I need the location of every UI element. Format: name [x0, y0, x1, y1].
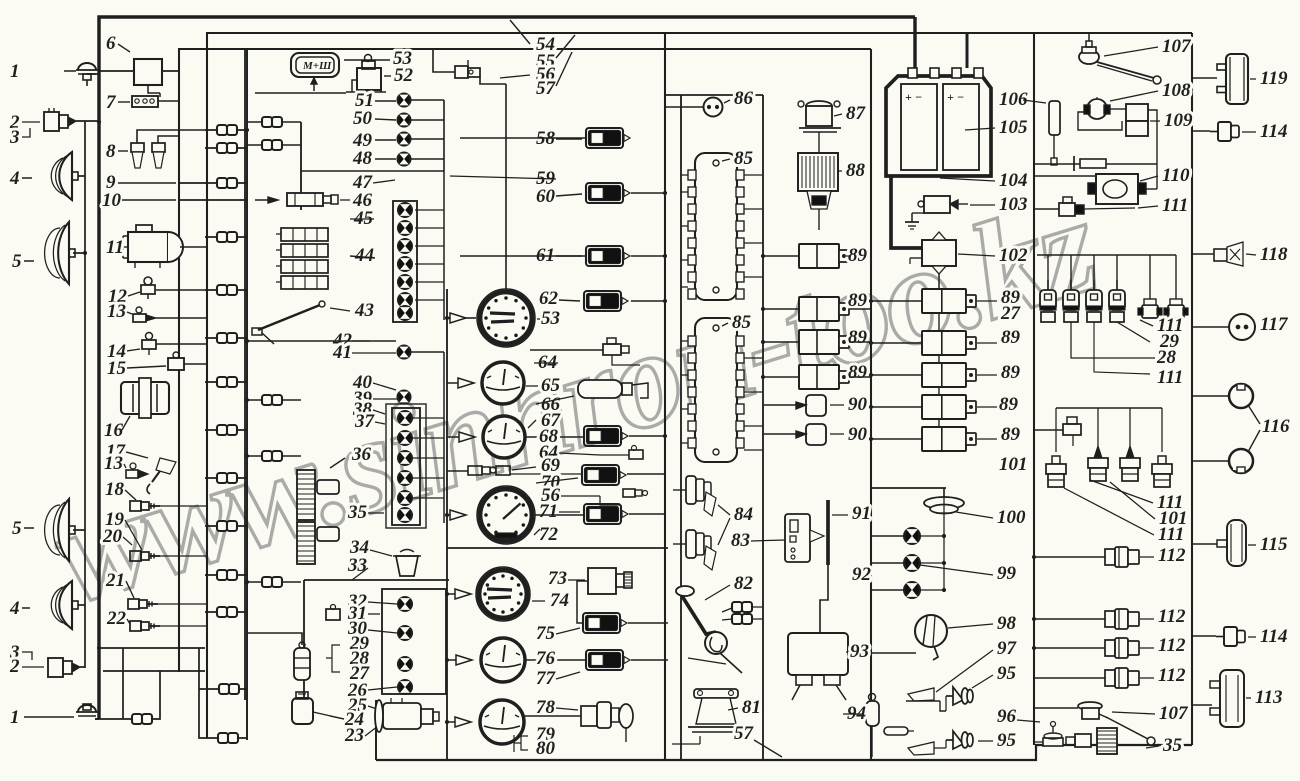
- speaker 95b: [953, 731, 963, 749]
- svg-text:50: 50: [353, 108, 373, 129]
- fuse 61: [586, 246, 623, 266]
- wire fuse61: [460, 255, 586, 257]
- svg-text:112: 112: [1158, 606, 1186, 627]
- valve 111t: [1059, 203, 1075, 216]
- svg-text:41: 41: [332, 342, 352, 363]
- gauge 76: [481, 638, 525, 682]
- breaker 103: [924, 196, 950, 213]
- ladder rungs: [205, 129, 247, 131]
- wire 89i: [871, 438, 922, 440]
- bulb block vertical: [303, 580, 305, 700]
- svg-text:87: 87: [846, 103, 867, 124]
- wire connector: [732, 614, 742, 624]
- switch 84 lower: [686, 530, 696, 558]
- svg-text:91: 91: [852, 503, 871, 524]
- gauge 53 speedometer: [477, 289, 535, 347]
- lamp 115: [1227, 520, 1246, 566]
- sensor 86: [704, 98, 723, 117]
- wire fuse62: [631, 300, 665, 302]
- bulb column 44-45: [393, 201, 417, 322]
- bulb column 37-39: [392, 408, 420, 525]
- bulb 32: [398, 597, 412, 611]
- fuse 77: [586, 650, 623, 670]
- wire connector: [217, 333, 227, 343]
- frame bottom edge: [376, 745, 1192, 760]
- heater plugs 29: [1040, 290, 1056, 310]
- svg-text:93: 93: [850, 641, 869, 662]
- svg-text:4: 4: [9, 598, 20, 619]
- wire fuse71: [629, 513, 665, 515]
- headlamp 5 top: [58, 222, 69, 284]
- wire connector: [262, 140, 272, 150]
- frame right edge: [1191, 33, 1193, 745]
- cock 96b: [1043, 738, 1063, 746]
- wire connector: [262, 395, 272, 405]
- wire connector: [217, 607, 227, 617]
- wire main feed top: [99, 17, 915, 719]
- headlamp 4 top: [59, 152, 72, 200]
- wire lamp5: [73, 252, 85, 254]
- wire 110 stubs: [1034, 175, 1096, 177]
- motor 11: [128, 232, 168, 262]
- svg-text:35: 35: [347, 502, 368, 523]
- bulb 41: [398, 346, 411, 359]
- wire 89d: [763, 376, 799, 378]
- svg-text:37: 37: [354, 411, 376, 432]
- svg-text:115: 115: [1260, 534, 1288, 555]
- svg-text:89: 89: [1001, 424, 1021, 445]
- wire sender73: [577, 581, 588, 623]
- ring lamp 116a: [1229, 384, 1253, 408]
- svg-text:+ −: + −: [905, 90, 922, 104]
- ground 103: [911, 213, 913, 222]
- flag 97: [908, 688, 934, 701]
- wire 114b: [1192, 635, 1216, 637]
- lamp 113: [1220, 670, 1244, 727]
- sensor 14: [146, 333, 153, 340]
- svg-text:71: 71: [539, 501, 558, 522]
- bulb box block edge: [304, 579, 449, 581]
- relay 89e: [922, 289, 966, 313]
- wire plug feeds: [1056, 407, 1162, 409]
- component 64b: [629, 450, 643, 459]
- svg-text:112: 112: [1158, 665, 1186, 686]
- bulb 50: [398, 114, 411, 127]
- wire 86: [665, 106, 703, 108]
- stalk switch 82: [676, 586, 694, 596]
- wire 89c: [763, 341, 799, 343]
- svg-text:+ −: + −: [947, 90, 964, 104]
- svg-text:107: 107: [1159, 703, 1189, 724]
- wire 119: [1192, 77, 1217, 79]
- svg-text:104: 104: [999, 170, 1028, 191]
- svg-text:13: 13: [107, 301, 126, 322]
- headlamp 5 bottom: [58, 499, 69, 561]
- svg-text:10: 10: [102, 190, 122, 211]
- svg-text:89: 89: [1001, 327, 1021, 348]
- svg-text:2: 2: [9, 656, 20, 677]
- wire 89g: [871, 374, 922, 376]
- svg-text:95: 95: [997, 730, 1017, 751]
- wire 84: [673, 489, 686, 491]
- wire gauge79: [447, 721, 455, 723]
- svg-text:77: 77: [536, 668, 557, 689]
- bulb 30: [398, 626, 412, 640]
- svg-text:84: 84: [734, 504, 753, 525]
- wire 89f: [871, 342, 922, 344]
- relay 6: [134, 59, 162, 85]
- svg-text:107: 107: [1162, 36, 1192, 57]
- heater 110: [1096, 174, 1138, 204]
- wire 81: [699, 736, 701, 744]
- svg-text:101: 101: [999, 454, 1028, 475]
- valve 112a: [1105, 549, 1115, 565]
- antenna 91: [826, 500, 830, 565]
- horn 118: [1214, 249, 1227, 261]
- component 66 flasher: [578, 380, 622, 398]
- svg-text:36: 36: [351, 444, 372, 465]
- relay 89h: [922, 395, 966, 419]
- wire bulbs 48-51 right: [411, 99, 444, 101]
- gauge block left vertical x447: [446, 289, 448, 760]
- horn relay 87: [806, 101, 832, 111]
- wire sender78: [524, 715, 581, 717]
- svg-text:76: 76: [536, 648, 556, 669]
- relay 89i: [922, 427, 966, 451]
- wire 117: [1192, 326, 1222, 328]
- lever 17: [152, 460, 168, 482]
- mid block right edge x665: [664, 33, 666, 760]
- fuse 71: [584, 504, 621, 524]
- device 31: [326, 609, 340, 620]
- svg-text:114: 114: [1260, 626, 1287, 647]
- svg-text:57: 57: [734, 723, 755, 744]
- relay 89f: [922, 331, 966, 355]
- wire 89h: [871, 406, 922, 408]
- svg-text:85: 85: [734, 148, 754, 169]
- fuse 59-60: [586, 183, 623, 203]
- gauge 67 ammeter: [483, 416, 525, 458]
- junction dots: [245, 128, 249, 132]
- resistor block 44: [281, 228, 328, 241]
- connector 7: [132, 96, 158, 107]
- fuse 62: [584, 291, 621, 311]
- wire strip1 right: [744, 174, 763, 176]
- svg-text:8: 8: [106, 141, 116, 162]
- sensor 15: [168, 358, 184, 370]
- mid vertical x301: [300, 122, 302, 210]
- wire row93: [255, 92, 346, 94]
- svg-text:81: 81: [742, 697, 761, 718]
- relay 89c: [799, 330, 839, 354]
- svg-text:7: 7: [106, 92, 117, 113]
- lamp 117: [1229, 314, 1255, 340]
- second ladder rungs: [247, 121, 301, 123]
- svg-text:28: 28: [1156, 347, 1177, 368]
- svg-text:105: 105: [999, 117, 1028, 138]
- wire bulbcol stubs: [415, 209, 444, 211]
- wire connector: [262, 451, 272, 461]
- wire lamp5b: [73, 529, 85, 531]
- fuse 75: [583, 613, 620, 633]
- wire vert x444 lower: [443, 352, 445, 523]
- wire connector: [217, 425, 227, 435]
- ring lamp 116b: [1229, 449, 1253, 473]
- svg-text:5: 5: [12, 251, 22, 272]
- plug 22: [130, 621, 141, 631]
- wire capsule: [248, 633, 302, 645]
- speaker 95a: [953, 687, 963, 705]
- gauge 72 speedometer: [477, 486, 535, 544]
- plug 114a: [1218, 122, 1231, 141]
- wire 90a: [763, 404, 796, 406]
- nuts 111m: [1142, 305, 1158, 318]
- valve 112d: [1105, 670, 1115, 686]
- wire gauge65: [447, 382, 458, 384]
- wire 112c: [1034, 647, 1105, 649]
- strip block left edge x681: [680, 95, 682, 760]
- flag 97b: [908, 742, 934, 755]
- frame bottom left stub: [375, 700, 377, 760]
- svg-text:27: 27: [1000, 303, 1022, 324]
- switch 83: [785, 514, 810, 562]
- gauge 73-74: [476, 567, 530, 621]
- svg-text:62: 62: [539, 288, 559, 309]
- svg-text:18: 18: [105, 479, 125, 500]
- wire 18-22: [160, 505, 207, 507]
- plug 2-3 top: [44, 112, 59, 131]
- svg-text:100: 100: [997, 507, 1026, 528]
- switch 94: [866, 701, 879, 726]
- wire plug23: [76, 120, 99, 122]
- connector strip 85 bottom: [695, 318, 737, 462]
- wire relay6: [99, 70, 134, 72]
- frame second line: [207, 33, 1192, 300]
- bulb box 26-32: [382, 589, 446, 694]
- svg-text:43: 43: [354, 300, 374, 321]
- svg-text:86: 86: [734, 88, 754, 109]
- wire heater bus: [1037, 254, 1176, 256]
- svg-text:96: 96: [997, 706, 1017, 727]
- washer nozzles 8: [131, 143, 144, 152]
- svg-text:99: 99: [997, 563, 1017, 584]
- svg-text:73: 73: [548, 568, 567, 589]
- svg-text:89: 89: [848, 290, 868, 311]
- wire lamp4b: [78, 604, 85, 606]
- svg-text:110: 110: [1162, 165, 1190, 186]
- wire connector: [217, 377, 227, 387]
- svg-text:1: 1: [10, 707, 20, 728]
- wire connector: [132, 714, 142, 724]
- spark plugs 101-111 row: [1052, 456, 1060, 464]
- wire 95b: [871, 744, 873, 757]
- wire bottom-left steps: [101, 647, 205, 649]
- wire fuse77: [631, 659, 668, 661]
- svg-text:109: 109: [1164, 110, 1193, 131]
- svg-text:89: 89: [848, 327, 868, 348]
- svg-text:98: 98: [997, 613, 1017, 634]
- wire vertical x444: [443, 100, 445, 171]
- wire 92: [871, 535, 904, 537]
- wire 112d: [1034, 677, 1105, 679]
- pedal 81: [694, 689, 738, 698]
- wire battery heavy down: [891, 176, 924, 248]
- wire fuse68: [629, 435, 665, 437]
- wire strip2 left: [681, 340, 688, 342]
- wire gauge72: [447, 514, 450, 516]
- bulb 40 single: [398, 391, 411, 404]
- horn 1 bottom: [78, 705, 96, 712]
- wire conn7: [158, 100, 179, 102]
- switch 84 upper: [686, 476, 696, 504]
- wire 108-109: [1078, 112, 1122, 130]
- wire 112a: [1034, 556, 1105, 558]
- svg-text:88: 88: [846, 160, 866, 181]
- svg-text:72: 72: [539, 524, 559, 545]
- svg-text:20: 20: [102, 526, 123, 547]
- wire gauge53: [447, 317, 450, 319]
- wire connector: [217, 143, 227, 153]
- svg-text:44: 44: [354, 245, 374, 266]
- wire motor11: [180, 246, 207, 248]
- wire plug69: [447, 470, 468, 472]
- svg-text:13: 13: [104, 453, 123, 474]
- wire res46: [268, 197, 278, 203]
- wire connector: [217, 521, 227, 531]
- wire jar леader: [313, 712, 344, 719]
- svg-text:3: 3: [9, 127, 20, 148]
- wire horn1b: [24, 716, 74, 718]
- connector strip 85 top: [695, 153, 737, 300]
- svg-text:15: 15: [107, 358, 127, 379]
- svg-text:22: 22: [106, 608, 127, 629]
- wire 95a: [940, 701, 946, 711]
- wire 113: [1192, 704, 1212, 706]
- block F left edge: [1033, 33, 1035, 745]
- svg-text:83: 83: [731, 530, 750, 551]
- plug 69: [468, 466, 482, 475]
- wire 89e: [871, 300, 922, 302]
- drain tap 107b: [1078, 702, 1102, 710]
- svg-text:118: 118: [1260, 244, 1288, 265]
- component 64 top: [603, 344, 621, 355]
- lamp 119: [1226, 54, 1248, 104]
- sender 78: [581, 706, 597, 726]
- relay 52: [357, 68, 381, 90]
- gauge 65: [482, 362, 524, 404]
- svg-text:1: 1: [10, 61, 20, 82]
- svg-text:111: 111: [1157, 367, 1183, 388]
- wire 90b: [763, 433, 796, 435]
- block D left edge x763: [762, 95, 764, 760]
- glow plugs 36: [297, 470, 315, 520]
- svg-text:90: 90: [848, 394, 868, 415]
- svg-text:11: 11: [106, 237, 124, 258]
- wire fuse70: [627, 473, 665, 475]
- plug 21: [128, 599, 139, 609]
- wire connector: [217, 232, 227, 242]
- lamp 92c: [904, 582, 920, 598]
- wire M+Sh arrow: [313, 77, 315, 91]
- wire connector: [217, 125, 227, 135]
- ladder rail x247: [246, 49, 248, 740]
- svg-text:89: 89: [848, 362, 868, 383]
- plug 18: [130, 501, 141, 511]
- cup 34: [396, 556, 418, 576]
- wire connector: [262, 117, 272, 127]
- wire 10: [179, 199, 247, 201]
- sender 73: [588, 568, 616, 594]
- pump 109: [1126, 104, 1148, 121]
- gauge block top edge: [447, 547, 668, 549]
- wire connector: [217, 570, 227, 580]
- wire strip2 right: [744, 357, 763, 359]
- svg-text:95: 95: [997, 663, 1017, 684]
- block D right edge: [870, 49, 872, 760]
- sensor 13b: [126, 470, 138, 478]
- jar 24: [292, 698, 313, 724]
- svg-text:16: 16: [104, 420, 124, 441]
- wire 112b: [1034, 618, 1105, 620]
- wire 91: [820, 565, 828, 635]
- relay 89b: [799, 297, 839, 321]
- wire connector: [262, 577, 272, 587]
- capsule 26-29: [294, 648, 310, 680]
- svg-text:103: 103: [999, 194, 1028, 215]
- lever 43: [258, 305, 320, 330]
- svg-text:57: 57: [536, 78, 557, 99]
- wire sensor56: [433, 49, 455, 72]
- bolt 111 upper: [1063, 424, 1081, 435]
- wire nozzles8: [137, 130, 207, 143]
- svg-text:80: 80: [536, 738, 556, 759]
- fuse 70: [582, 465, 619, 485]
- svg-text:89: 89: [848, 245, 868, 266]
- wire strip1 left: [681, 174, 688, 176]
- wire bulbcol2 stubs: [412, 417, 444, 419]
- wire 88: [818, 209, 820, 230]
- lamp 92b: [904, 555, 920, 571]
- wire battery right drop: [966, 33, 969, 68]
- fuse 68: [584, 426, 621, 446]
- svg-text:74: 74: [550, 590, 569, 611]
- brake drum 16: [121, 382, 169, 414]
- sensor 13: [133, 314, 146, 322]
- horn 100: [924, 497, 964, 509]
- svg-text:65: 65: [541, 375, 561, 396]
- wire comp64: [530, 349, 603, 351]
- wire 87: [818, 132, 820, 153]
- frame left lower: [206, 300, 208, 738]
- svg-text:5: 5: [12, 518, 22, 539]
- sender 23-25: [383, 703, 421, 729]
- svg-text:78: 78: [536, 697, 556, 718]
- wire 9: [179, 182, 207, 184]
- wire gauge74: [447, 593, 455, 595]
- svg-text:111: 111: [1158, 524, 1184, 545]
- wire plug23b: [80, 666, 85, 668]
- wire battery drop: [913, 17, 916, 78]
- wire 94: [871, 726, 873, 744]
- bulb 48: [398, 153, 411, 166]
- resistor 46: [287, 193, 323, 206]
- heater plug 35: [1097, 728, 1117, 754]
- svg-text:33: 33: [347, 555, 367, 576]
- switch 96: [884, 727, 908, 735]
- wire 107b: [1034, 707, 1078, 709]
- wire fuse58: [460, 137, 586, 139]
- plug 2-3 bottom: [48, 658, 63, 677]
